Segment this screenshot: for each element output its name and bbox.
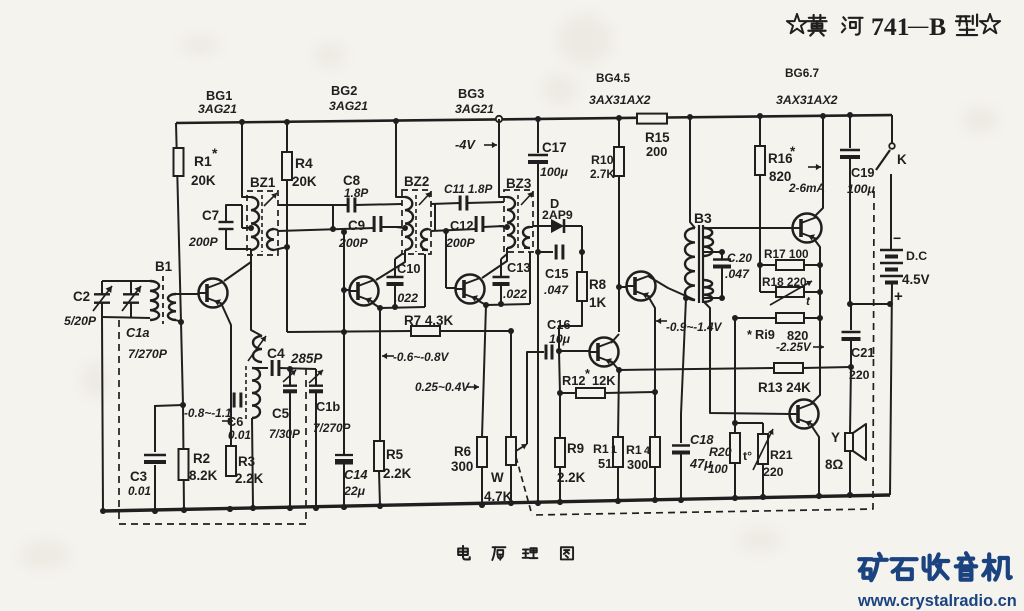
svg-text:0.01: 0.01 — [128, 484, 151, 498]
svg-text:7/270P: 7/270P — [128, 347, 168, 361]
svg-text:1: 1 — [611, 444, 617, 456]
svg-text:-0.6~-0.8V: -0.6~-0.8V — [393, 350, 450, 364]
node speaker ground — [847, 492, 853, 498]
voltage note -0.9~-1.4V — [656, 320, 667, 322]
IF transformer BZ2 (dashed can) — [402, 190, 431, 254]
capacitor C16 — [545, 345, 548, 360]
wire C9 to BZ2 — [381, 226, 402, 228]
svg-text:C1a: C1a — [126, 325, 149, 340]
wire C16 to BG4 base — [559, 350, 590, 352]
transistor BG1 — [199, 279, 228, 308]
oscillator coil B2 lower — [252, 368, 260, 418]
svg-text:2.2K: 2.2K — [383, 466, 412, 481]
wire C8 to BZ2 — [355, 204, 402, 205]
resistor R20 — [730, 433, 740, 463]
current note 2-6mA — [808, 166, 821, 168]
svg-text:2AP9: 2AP9 — [542, 208, 573, 222]
svg-text:W: W — [491, 470, 504, 485]
wire rail to B3 primary — [690, 117, 695, 228]
resistor R4 — [282, 152, 292, 180]
svg-text:t°: t° — [743, 449, 752, 463]
node C16 right — [556, 348, 562, 354]
wire BG5 emitter — [648, 296, 655, 437]
node R20 ground — [732, 495, 738, 501]
capacitor C8 — [347, 198, 350, 213]
capacitor C4 — [271, 360, 274, 376]
capacitor C13 — [500, 259, 502, 277]
IF transformer BZ1 (dashed can) — [247, 191, 278, 255]
svg-text:8Ω: 8Ω — [825, 457, 843, 472]
svg-text:*: * — [212, 145, 218, 161]
node C15 right — [579, 249, 585, 255]
node R14 ground — [652, 497, 658, 503]
node BG2 base tap — [341, 287, 347, 293]
svg-text:220: 220 — [763, 465, 784, 479]
svg-text:741: 741 — [871, 12, 910, 41]
transistor BG4 — [590, 338, 619, 367]
svg-text:3AX31AX2: 3AX31AX2 — [776, 93, 838, 107]
node R17 right — [817, 262, 823, 268]
node R9 ground — [557, 499, 563, 505]
potentiometer W — [506, 437, 516, 465]
wire C8 jog — [332, 205, 334, 230]
svg-text:BG1: BG1 — [206, 88, 232, 103]
svg-text:BG4.5: BG4.5 — [596, 71, 631, 85]
svg-text:R4: R4 — [295, 155, 313, 171]
svg-text:22μ: 22μ — [343, 484, 366, 498]
node B1-R1 junction — [178, 319, 184, 325]
wire wiper to C16 — [527, 352, 544, 444]
transistor BG5 — [627, 272, 656, 301]
title star right — [980, 14, 1000, 33]
svg-text:100μ: 100μ — [847, 182, 876, 196]
svg-text:+: + — [894, 288, 903, 305]
wire BZ2 to C11 — [431, 203, 460, 204]
svg-text:12K: 12K — [592, 373, 616, 388]
capacitor C17 — [537, 119, 539, 153]
svg-text:8.2K: 8.2K — [189, 468, 218, 483]
wire C11 jog — [434, 203, 436, 230]
node R7 right end — [508, 328, 514, 334]
capacitor C3 — [144, 454, 166, 456]
resistor R13 — [774, 363, 803, 373]
wire left vertical to ground rail — [102, 317, 103, 511]
svg-text:K: K — [897, 152, 907, 167]
svg-text:.022: .022 — [394, 291, 418, 305]
wire BG3 base vertical — [445, 231, 447, 288]
wire R9 vertical — [559, 351, 560, 393]
wire BZ1 to oscillator coil — [251, 255, 262, 336]
svg-text:B1: B1 — [155, 259, 173, 274]
svg-text:200: 200 — [646, 144, 667, 159]
wire R20 vertical — [734, 318, 736, 433]
wire BZ3 secondary to diode — [533, 225, 551, 227]
svg-text:BG3: BG3 — [458, 86, 484, 101]
node C18 top — [683, 295, 689, 301]
title star left — [787, 14, 807, 33]
resistor R14 — [650, 437, 660, 467]
node BG4 emitter — [616, 367, 622, 373]
wire diode out — [564, 225, 582, 227]
svg-text:C9: C9 — [348, 218, 365, 233]
node bias-C3 junction — [180, 402, 186, 408]
svg-text:Ri9: Ri9 — [755, 327, 775, 342]
svg-text:100μ: 100μ — [540, 165, 569, 179]
svg-text:C1b: C1b — [316, 399, 340, 414]
resistor R1 — [174, 148, 184, 176]
svg-text:51: 51 — [598, 456, 612, 471]
watermark logo shou — [924, 554, 949, 579]
node AGC junction — [341, 329, 347, 335]
svg-text:C11 1.8P: C11 1.8P — [444, 182, 492, 196]
resistor R2 — [179, 449, 189, 480]
svg-text:C17: C17 — [542, 140, 567, 155]
wire C11 to BZ3 — [467, 202, 504, 203]
node B3 rail junction — [687, 114, 693, 120]
title character huang — [807, 15, 826, 36]
node C19 rail junction — [847, 112, 853, 118]
svg-text:R5: R5 — [386, 447, 404, 462]
wire BG1 emitter — [221, 303, 231, 446]
capacitor C18 — [681, 298, 686, 443]
svg-text:R13 24K: R13 24K — [758, 380, 811, 395]
svg-text:R7 4.3K: R7 4.3K — [404, 313, 453, 328]
svg-text:—: — — [907, 15, 929, 37]
svg-text:R1: R1 — [626, 443, 642, 457]
node C15 junction — [535, 249, 541, 255]
node output junction — [848, 364, 854, 370]
wire W bottom to ground — [510, 465, 512, 503]
svg-text:1K: 1K — [589, 295, 606, 310]
node C10 bottom — [392, 304, 398, 310]
caption character dian — [458, 546, 470, 559]
svg-text:BZ2: BZ2 — [404, 174, 429, 189]
svg-text:-4V: -4V — [455, 137, 476, 152]
wire C15 link — [538, 251, 553, 253]
capacitor C19 — [849, 115, 851, 148]
resistor R8 — [577, 272, 587, 301]
svg-text:3AG21: 3AG21 — [329, 99, 368, 113]
wire BG2 emitter — [371, 302, 380, 308]
wire detector vertical — [581, 226, 583, 272]
svg-text:4.5V: 4.5V — [902, 272, 930, 287]
node R18 right — [817, 289, 823, 295]
svg-text:2.7K: 2.7K — [590, 167, 615, 181]
svg-text:R20: R20 — [709, 445, 732, 459]
svg-text:C10: C10 — [397, 261, 420, 276]
svg-text:C21: C21 — [851, 345, 874, 360]
svg-text:100: 100 — [708, 462, 728, 476]
wire BG5 base — [619, 286, 627, 288]
wire B2 bottom to ground — [252, 418, 253, 508]
node AGC top — [341, 229, 347, 235]
wire BG2 collector to BZ2 primary — [376, 250, 405, 280]
node R17 left — [757, 262, 763, 268]
node C13 bottom — [498, 301, 504, 307]
voltage note -0.6~-0.8V — [382, 355, 394, 357]
svg-text:285P: 285P — [290, 351, 322, 366]
svg-text:BG2: BG2 — [331, 83, 357, 98]
node BG7 emitter ground — [816, 493, 822, 499]
svg-text:20K: 20K — [292, 174, 317, 189]
wire B3 secondary top to BG6 base — [704, 227, 793, 229]
transistor BG3 — [456, 275, 485, 304]
resistor R15 (in rail) — [637, 114, 667, 124]
wire stage2 mid — [431, 229, 476, 231]
node R21 ground — [760, 494, 766, 500]
wire B1 secondary top to BG1 base — [176, 293, 199, 295]
svg-text:R15: R15 — [645, 130, 670, 145]
wire BG3 emitter — [477, 300, 486, 305]
svg-text:-0.8~-1.1: -0.8~-1.1 — [184, 406, 232, 420]
driver transformer B3 — [685, 228, 695, 300]
battery D.C 4.5V — [880, 249, 903, 252]
node BZ1 rail junction — [239, 119, 245, 125]
svg-text:7/30P: 7/30P — [269, 427, 300, 441]
resistor R19 — [735, 317, 776, 319]
trimmer capacitor C5 — [289, 369, 291, 385]
node C5 top — [287, 366, 293, 372]
svg-text:R2: R2 — [193, 451, 210, 466]
node R12 left — [557, 390, 563, 396]
wire AGC vertical — [343, 232, 345, 332]
svg-text:B3: B3 — [694, 210, 712, 226]
svg-text:10μ: 10μ — [549, 332, 571, 346]
svg-text:*: * — [747, 327, 752, 342]
svg-text:200P: 200P — [338, 236, 369, 250]
svg-text:BZ1: BZ1 — [250, 175, 276, 190]
svg-text:2-6mA: 2-6mA — [788, 181, 825, 195]
resistor R7 — [411, 326, 440, 336]
resistor R3 — [226, 446, 236, 476]
wire C12 to BZ3 — [483, 226, 504, 227]
capacitor C9 — [373, 216, 376, 232]
svg-text:0.25~0.4V: 0.25~0.4V — [415, 380, 470, 394]
svg-text:R8: R8 — [589, 277, 607, 292]
node R20 top — [732, 420, 738, 426]
node R3 ground — [227, 506, 233, 512]
wire C3 vertical — [154, 406, 156, 452]
node R5 ground — [377, 503, 383, 509]
watermark logo ji — [983, 554, 1011, 579]
title character xing — [956, 14, 977, 35]
svg-text:C16: C16 — [547, 317, 570, 332]
svg-text:R6: R6 — [454, 444, 471, 459]
svg-text:R9: R9 — [567, 441, 584, 456]
svg-text:R1: R1 — [194, 153, 212, 169]
svg-text:1.8P: 1.8P — [344, 186, 368, 200]
resistor R16 — [759, 116, 761, 146]
dashed mechanical link K to W — [532, 191, 874, 515]
svg-text:C4: C4 — [267, 345, 285, 361]
svg-text:R12: R12 — [562, 373, 585, 388]
svg-text:*: * — [585, 366, 590, 381]
capacitor C10 — [394, 259, 396, 277]
wire rail to BZ2 primary top — [396, 121, 405, 197]
svg-text:C13: C13 — [507, 260, 530, 275]
wire BG7 emitter to ground — [811, 425, 819, 496]
title character he — [842, 17, 863, 34]
svg-text:20K: 20K — [191, 173, 216, 188]
capacitor C7 — [219, 221, 234, 223]
wire BZ1 primary bottom to BG1 collector — [224, 250, 251, 281]
node C14 ground — [341, 504, 347, 510]
svg-text:820: 820 — [769, 169, 791, 184]
node R16 rail junction — [757, 113, 763, 119]
svg-text:300: 300 — [451, 459, 473, 474]
wire C4 link — [252, 367, 268, 369]
node C5 ground — [287, 505, 293, 511]
node R19 left — [732, 315, 738, 321]
wire W top — [510, 331, 512, 437]
node W ground — [508, 500, 514, 506]
svg-text:BZ3: BZ3 — [506, 176, 531, 191]
capacitor C15 — [555, 245, 558, 260]
svg-text:-0.9~-1.4V: -0.9~-1.4V — [666, 320, 723, 334]
resistor R17 — [760, 264, 776, 266]
dashed gang link of tuning capacitors — [119, 320, 306, 524]
wire top supply rail — [176, 115, 892, 123]
transistor BG7 — [790, 400, 819, 429]
electrolytic C14 — [335, 454, 353, 456]
wire emitter bus stage2 — [486, 304, 530, 305]
wire B3 secondary bottom to BG7 base — [704, 302, 790, 414]
capacitor C6 — [233, 393, 236, 408]
resistor R12 — [560, 392, 576, 394]
wire C3 horizontal — [154, 405, 183, 406]
svg-text:4: 4 — [644, 445, 650, 457]
wire BG6 collector to rail — [814, 116, 823, 217]
svg-text:C7: C7 — [202, 208, 219, 223]
wire BG5 collector to B3 — [648, 276, 695, 300]
node C8 jog junction — [330, 226, 336, 232]
node R10 rail junction — [616, 115, 622, 121]
node R19 right — [817, 315, 823, 321]
node B2 ground — [250, 505, 256, 511]
wire switch to battery — [890, 174, 892, 250]
wire emitter bus stage1 — [380, 307, 425, 308]
svg-text:C12: C12 — [450, 218, 473, 233]
wire bottom ground rail — [103, 495, 890, 511]
wire BG4 collector — [611, 334, 619, 343]
wire C4 to trimmers — [279, 368, 316, 369]
trimmer capacitor C1b — [315, 369, 317, 385]
svg-text:3AG21: 3AG21 — [455, 102, 494, 116]
resistor R11 — [618, 370, 619, 437]
svg-text:R17 100: R17 100 — [764, 247, 809, 261]
node C3 ground — [152, 508, 158, 514]
svg-text:R21: R21 — [770, 448, 793, 462]
svg-text:.022: .022 — [503, 287, 527, 301]
capacitor C11 — [459, 196, 462, 211]
diode D 2AP9 — [551, 219, 564, 233]
oscillator coil B2 upper — [253, 336, 262, 362]
caption character tu — [561, 547, 573, 559]
svg-text:C5: C5 — [272, 406, 290, 421]
svg-text:C2: C2 — [73, 289, 90, 304]
wire BZ1 secondary top out — [278, 204, 348, 206]
resistor R9 — [555, 438, 565, 467]
svg-text:D.C: D.C — [906, 249, 927, 263]
svg-text:3AX31AX2: 3AX31AX2 — [589, 93, 651, 107]
node C1b ground — [313, 505, 319, 511]
svg-text:.047: .047 — [544, 283, 569, 297]
node R11 ground — [615, 498, 621, 504]
capacitor C20 — [704, 252, 722, 259]
wire B1 secondary bottom to node — [176, 320, 181, 322]
svg-text:3AG21: 3AG21 — [198, 102, 237, 116]
resistor R5 — [374, 441, 384, 471]
node BG3 base tap — [443, 228, 449, 234]
svg-text:2.2K: 2.2K — [557, 470, 586, 485]
node C18 ground — [678, 497, 684, 503]
resistor R21 (adjustable) — [735, 422, 763, 424]
loudspeaker Y — [845, 433, 853, 451]
svg-text:BG6.7: BG6.7 — [785, 66, 820, 80]
svg-text:.047: .047 — [725, 267, 750, 281]
wire left bias vertical — [176, 123, 184, 511]
switch K — [891, 115, 893, 143]
node BG6 rail junction — [820, 113, 826, 119]
wire battery to ground rail — [890, 283, 892, 495]
svg-text:−: − — [893, 230, 901, 246]
svg-text:200P: 200P — [188, 235, 219, 249]
caption character yuan — [492, 547, 505, 560]
svg-text:C3: C3 — [130, 469, 147, 484]
node battery positive tap — [887, 301, 893, 307]
node ground rail left end — [100, 508, 106, 514]
variable capacitor C1a — [130, 281, 132, 294]
wire BG3 base — [446, 287, 455, 289]
watermark logo yin — [956, 553, 976, 579]
wire BG4 emitter — [611, 361, 619, 370]
wire BG3 collector to BZ3 primary — [482, 248, 507, 278]
svg-text:*: * — [790, 144, 796, 159]
capacitor C12 — [475, 216, 478, 232]
wire R10 vertical — [618, 118, 620, 147]
svg-text:C14: C14 — [344, 467, 367, 482]
node BG3 emitter — [483, 302, 489, 308]
wire BZ1 secondary mid out — [278, 228, 374, 231]
capacitor C21 — [850, 304, 852, 330]
transistor BG2 — [350, 277, 379, 306]
svg-text:0.01: 0.01 — [228, 428, 251, 442]
wire BZ3 secondary return — [529, 252, 531, 304]
wire C2 bottom link — [102, 317, 150, 318]
wire rail to BZ3 primary top — [499, 119, 507, 197]
variable capacitor C2 — [101, 281, 103, 294]
svg-text:5/20P: 5/20P — [64, 314, 97, 328]
wire rail to BZ1 primary — [242, 122, 251, 197]
wire speaker bottom — [849, 451, 851, 495]
wire R8 to C16 node — [559, 301, 582, 351]
wire C2 top link — [102, 280, 150, 282]
resistor R10 — [614, 147, 624, 176]
svg-text:R10: R10 — [591, 153, 614, 167]
node R6 ground — [479, 502, 485, 508]
node C17 rail junction — [535, 116, 541, 122]
svg-text:C.20: C.20 — [727, 251, 752, 265]
wire speaker top — [850, 367, 851, 433]
svg-text:R1: R1 — [593, 442, 609, 456]
resistor R6 — [482, 305, 486, 437]
node R4 rail junction — [284, 119, 290, 125]
watermark logo shi — [891, 559, 916, 579]
wire R4 vertical to R7 — [286, 122, 288, 332]
wire BZ2 secondary return — [424, 254, 426, 307]
wire positive link — [850, 303, 891, 305]
watermark logo kuang — [859, 554, 887, 580]
